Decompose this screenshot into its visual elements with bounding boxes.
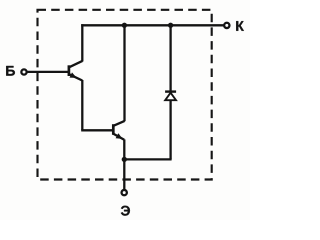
wire: Q2 collector vertical <box>123 25 125 121</box>
transistor Q1 emitter diagonal <box>69 74 82 80</box>
wire: Q1 collector vertical up <box>81 24 83 61</box>
wire: Q1 emitter vertical down <box>81 80 83 130</box>
diode VD1 cathode bar <box>165 90 176 92</box>
diode VD1 triangle (anode, pointing up) <box>165 93 176 101</box>
transistor Q1 emitter arrowhead <box>70 72 77 78</box>
transistor Q1 collector diagonal <box>69 61 82 67</box>
component outline dashed box <box>38 10 212 180</box>
terminal К circle <box>224 23 229 28</box>
terminal Б circle <box>21 69 26 74</box>
label К <box>236 21 244 31</box>
node: emitter junction with diode return wire <box>122 157 127 162</box>
label Э <box>121 206 130 216</box>
wire: diode return horizontal to emitter node <box>124 158 171 160</box>
wire: Q1 emitter to Q2 base horizontal <box>81 129 113 131</box>
transistor Q2 emitter arrowhead <box>116 133 123 139</box>
transistor Q1 base bar <box>68 65 71 76</box>
terminal Э circle <box>122 190 127 195</box>
wire: Q2 emitter vertical down to emitter node <box>123 139 125 189</box>
transistor Q2 emitter diagonal <box>113 134 124 140</box>
node: junction of Q2 collector on top rail <box>122 23 127 28</box>
transistor Q2 collector diagonal <box>113 121 124 126</box>
transistor Q2 base bar <box>112 124 115 135</box>
label Б <box>6 66 15 76</box>
wire: top collector rail <box>81 24 224 26</box>
wire: diode vertical branch <box>169 25 171 159</box>
wire: base lead from terminal Б to Q1 base bar <box>27 71 69 73</box>
node: junction of diode branch on top rail <box>168 23 173 28</box>
